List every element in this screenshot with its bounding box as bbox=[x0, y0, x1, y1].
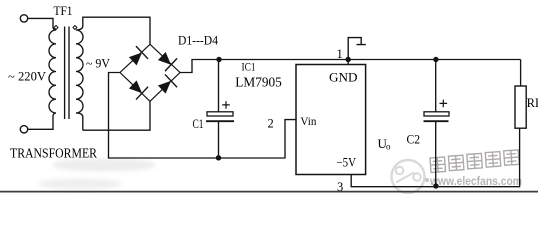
junction C2 top bbox=[433, 57, 438, 62]
pin 3 wire bbox=[351, 128, 519, 187]
svg-text:RI: RI bbox=[527, 96, 538, 110]
terminal bottom-left bbox=[20, 126, 27, 133]
junction C2 bottom bbox=[433, 183, 438, 188]
transformer polarity dot right bbox=[73, 26, 77, 30]
transformer TF1 secondary winding bbox=[76, 17, 150, 130]
watermark smudge left bbox=[38, 159, 156, 190]
junction C1 bottom bbox=[216, 155, 221, 160]
ground symbol bbox=[348, 38, 366, 60]
diode D2 top-right bbox=[156, 50, 177, 72]
diode D4 bottom-right bbox=[156, 74, 177, 96]
wire R1 top bbox=[520, 60, 522, 87]
svg-text:~ 9V: ~ 9V bbox=[86, 56, 111, 71]
watermark link icon bbox=[392, 160, 425, 193]
svg-text:TF1: TF1 bbox=[54, 3, 73, 18]
svg-text:LM7905: LM7905 bbox=[235, 75, 282, 90]
wire bridge minus rail to Vin bbox=[109, 73, 297, 159]
svg-text:C2: C2 bbox=[407, 133, 421, 147]
svg-text:~ 220V: ~ 220V bbox=[8, 69, 47, 84]
svg-text:Vin: Vin bbox=[300, 114, 316, 128]
svg-text:C1: C1 bbox=[193, 117, 204, 131]
IC1 LM7905 box bbox=[296, 65, 366, 175]
transformer polarity dot left bbox=[54, 26, 58, 30]
svg-text:2: 2 bbox=[268, 117, 274, 131]
label Uo bbox=[378, 136, 392, 152]
svg-text:GND: GND bbox=[329, 70, 358, 85]
watermark url text bbox=[425, 176, 522, 188]
capacitor C2 bbox=[424, 60, 450, 187]
svg-text:D1---D4: D1---D4 bbox=[178, 33, 218, 48]
svg-text:3: 3 bbox=[337, 180, 343, 194]
svg-text:o: o bbox=[386, 142, 391, 152]
diode bridge D1-D4 outline bbox=[120, 44, 180, 101]
capacitor C1 bbox=[206, 60, 234, 159]
diode D1 top-left bbox=[127, 46, 148, 68]
bottom border line bbox=[0, 191, 538, 193]
watermark CJK text bbox=[430, 150, 519, 173]
diode D3 bottom-left bbox=[127, 78, 148, 100]
wire secondary bottom to bridge AC bbox=[83, 101, 150, 130]
transformer TF1 primary winding bbox=[28, 18, 56, 129]
svg-text:IC1: IC1 bbox=[242, 60, 256, 74]
svg-text:−5V: −5V bbox=[337, 156, 357, 170]
junction C1 top bbox=[216, 57, 221, 62]
pin 1 wire and junction bbox=[347, 60, 349, 65]
wire bridge plus to GND rail bbox=[180, 60, 521, 73]
svg-text:TRANSFORMER: TRANSFORMER bbox=[10, 146, 97, 161]
svg-text:1: 1 bbox=[337, 47, 343, 61]
transformer core bbox=[65, 27, 69, 120]
terminal top-left bbox=[20, 15, 27, 22]
resistor R1 bbox=[515, 86, 526, 128]
